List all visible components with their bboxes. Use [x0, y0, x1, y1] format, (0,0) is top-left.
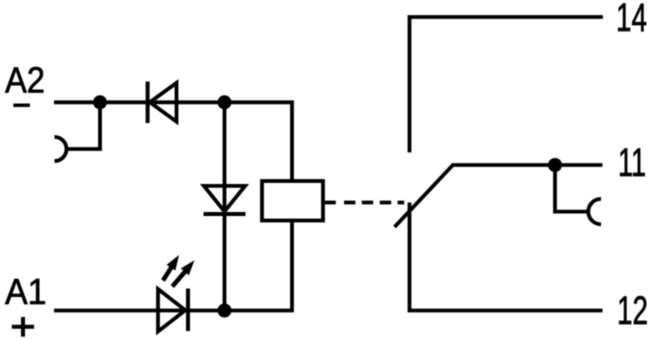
junction dot bottom	[218, 304, 232, 318]
plus sign	[12, 317, 34, 337]
node socket symbol right	[588, 199, 601, 224]
junction dot top-mid	[218, 95, 232, 109]
wire hook drop left	[67, 102, 101, 149]
wire contact 14	[410, 17, 603, 152]
mechanical link dashed	[325, 201, 404, 205]
LED D3	[158, 255, 195, 332]
wire freewheel branch vertical	[223, 102, 227, 310]
junction dot top-left	[93, 95, 107, 109]
wire A1 horizontal to coil bottom corner	[54, 221, 292, 311]
diode D1	[148, 82, 177, 124]
wire pole to 12	[410, 203, 603, 311]
svg-text:A2: A2	[5, 60, 45, 101]
node socket symbol left	[55, 137, 67, 161]
svg-text:A1: A1	[5, 271, 47, 312]
svg-text:11: 11	[618, 141, 646, 185]
switch blade and wire 11	[395, 165, 603, 227]
minus sign	[13, 104, 30, 108]
svg-text:12: 12	[617, 289, 648, 333]
diode D2 freewheel	[204, 186, 246, 214]
junction dot contact 11	[548, 158, 562, 172]
svg-text:14: 14	[616, 0, 647, 40]
wire hook drop right	[555, 165, 589, 212]
wire A2 horizontal to coil corner	[54, 102, 292, 181]
relay coil K1	[262, 181, 323, 221]
